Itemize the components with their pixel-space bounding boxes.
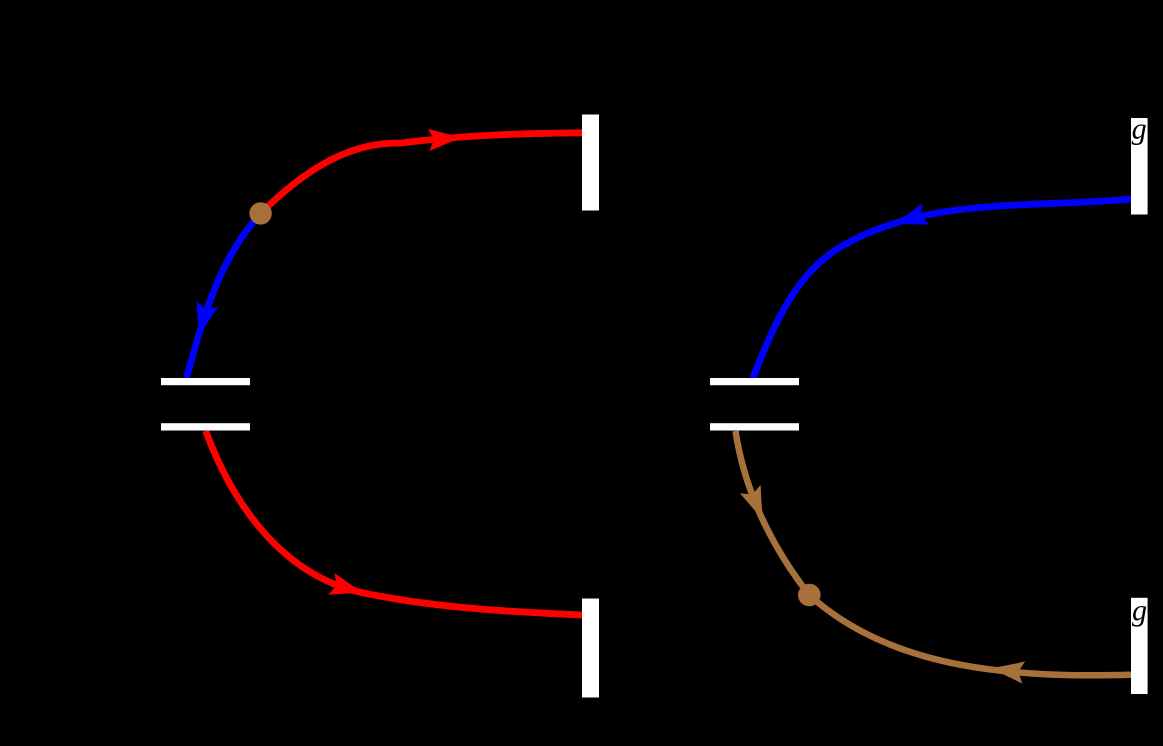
node: left pair-creation vertex (brown dot) xyxy=(249,202,271,224)
label g (top gate) xyxy=(1132,124,1146,145)
wire: right blue worldline (top gate g to capacitor top plate) xyxy=(753,199,1131,378)
label g (bottom gate) xyxy=(1132,606,1146,627)
capacitor left: top plate xyxy=(161,378,250,385)
wire: left blue worldline (dot to capacitor top plate) xyxy=(187,213,261,378)
gate bar: right figure bottom (labelled g) xyxy=(1131,598,1148,694)
arrowhead on right brown worldline upper part (pointing down) xyxy=(740,485,774,525)
arrowhead on left lower red worldline (pointing down-right) xyxy=(328,573,367,604)
capacitor right: top plate xyxy=(710,378,799,385)
wire: left red worldline (dot to top-right gate) xyxy=(261,133,583,214)
capacitor right: bottom plate xyxy=(710,423,799,430)
capacitor left: bottom plate xyxy=(161,423,250,430)
gate bar: left figure top-right xyxy=(582,115,599,211)
arrowhead on left blue worldline (pointing down-left) xyxy=(188,301,218,340)
gate bar: right figure top (labelled g) xyxy=(1131,118,1148,215)
arrowhead on right brown worldline lower part (pointing left) xyxy=(989,657,1025,683)
wire: right brown worldline (capacitor bottom plate to dot to bottom gate g) xyxy=(736,431,1132,675)
arrowhead on right blue worldline (pointing left) xyxy=(890,203,929,235)
node: right annihilation vertex (brown dot) xyxy=(798,584,821,607)
gate bar: left figure bottom-right xyxy=(582,599,599,698)
wire: left lower red worldline (capacitor bottom plate to bottom-right gate) xyxy=(206,431,583,615)
arrowhead on left red worldline (pointing right) xyxy=(428,126,463,151)
